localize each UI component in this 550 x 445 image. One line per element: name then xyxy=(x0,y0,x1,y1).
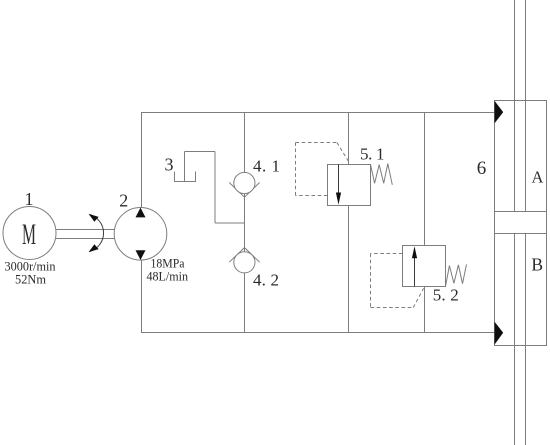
relief valve 5.2 internal flow arrow xyxy=(414,258,416,287)
wire left vertical through pump xyxy=(141,112,143,333)
wire tank branch: down pipe into tank xyxy=(184,152,186,182)
relief valve 5.1 pilot line (dashed) xyxy=(296,143,349,196)
svg-text:5. 1: 5. 1 xyxy=(360,144,385,163)
wire relief 5.2 branch vertical xyxy=(424,112,426,333)
relief valve 5.2 spring xyxy=(446,264,467,286)
rotation double-arrow arc xyxy=(90,215,104,252)
svg-text:B: B xyxy=(531,255,543,275)
wire bottom bus xyxy=(141,332,495,334)
svg-text:18MPa: 18MPa xyxy=(151,257,185,271)
svg-text:52Nm: 52Nm xyxy=(15,273,46,287)
svg-text:3: 3 xyxy=(165,155,174,175)
wire tank branch to junction between check valves xyxy=(215,222,245,224)
wire tank branch horizontal top xyxy=(185,151,216,153)
check valve 4.1 seat V xyxy=(229,183,259,198)
svg-text:3000r/min: 3000r/min xyxy=(5,260,57,274)
port A flow triangle (filled) xyxy=(495,101,504,124)
cylinder rod lower xyxy=(514,234,516,445)
shaft coupling lines xyxy=(56,230,114,239)
check valve 4.2 ball circle xyxy=(234,252,255,273)
port B flow triangle (filled) xyxy=(495,322,504,345)
tank reservoir 3 xyxy=(175,172,196,182)
cylinder barrel 6 xyxy=(495,101,547,346)
svg-text:4. 2: 4. 2 xyxy=(253,271,279,290)
relief valve 5.1 internal flow arrow xyxy=(338,165,340,194)
wire check-valve branch vertical xyxy=(244,112,246,333)
svg-text:4. 1: 4. 1 xyxy=(253,156,280,175)
rotation arrowhead bottom xyxy=(89,244,99,252)
svg-text:5. 2: 5. 2 xyxy=(433,286,459,305)
rotation arrowhead top xyxy=(89,214,99,222)
wire relief 5.1 branch vertical xyxy=(348,112,350,333)
svg-text:A: A xyxy=(531,168,543,187)
relief valve 5.1 spring xyxy=(371,164,393,185)
motor U1 circle xyxy=(3,207,56,260)
pump 2 circle xyxy=(114,208,167,261)
svg-text:1: 1 xyxy=(25,189,34,209)
check valve 4.1 ball circle xyxy=(234,172,255,193)
relief valve 5.1 body box xyxy=(328,165,371,206)
wire top bus P-line xyxy=(141,112,495,114)
svg-text:6: 6 xyxy=(477,158,487,179)
cylinder rod upper xyxy=(515,0,526,445)
svg-text:M: M xyxy=(22,218,36,251)
wire tank branch vertical xyxy=(214,152,216,224)
svg-text:2: 2 xyxy=(119,191,128,211)
relief valve 5.2 pilot line (dashed) xyxy=(371,254,424,308)
svg-text:48L/min: 48L/min xyxy=(147,270,189,284)
check valve 4.2 seat V xyxy=(229,248,259,263)
pump outlet triangle top (filled) xyxy=(136,208,146,218)
relief valve 5.2 body box xyxy=(403,246,446,287)
pump outlet triangle bottom (filled) xyxy=(136,250,146,260)
cylinder piston xyxy=(495,212,547,234)
